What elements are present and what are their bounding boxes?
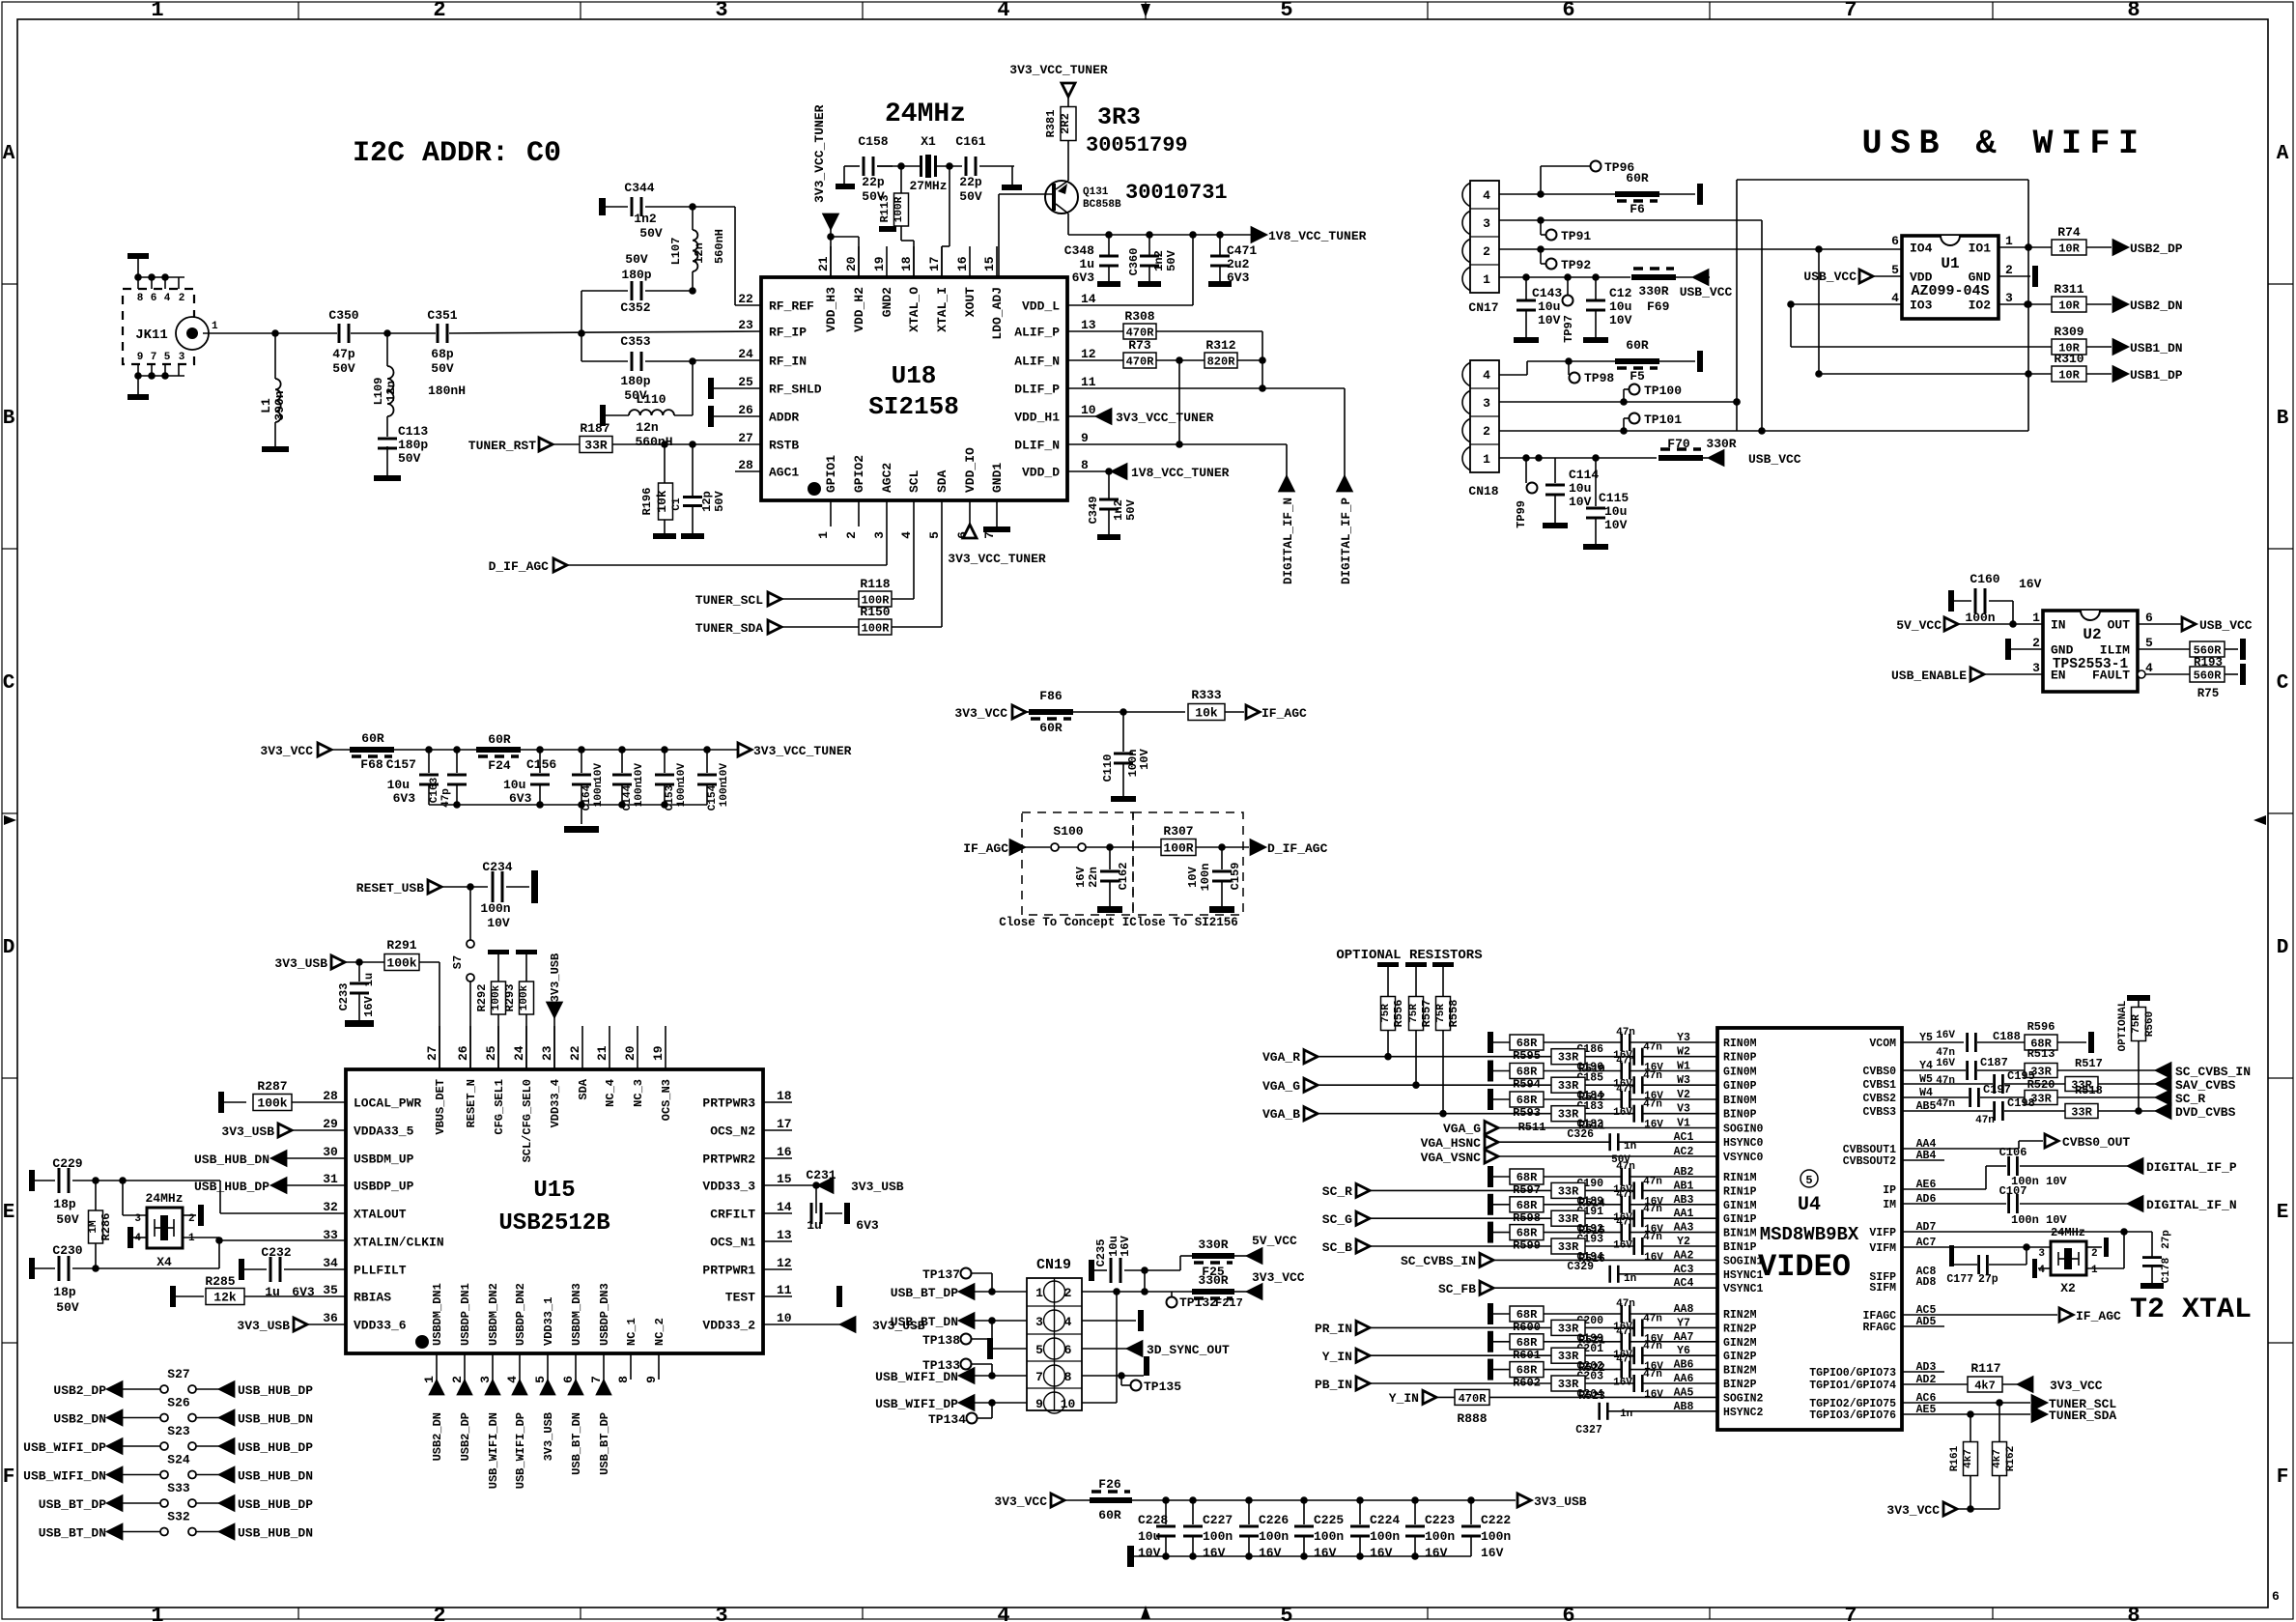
svg-text:ADDR: ADDR	[769, 411, 799, 425]
svg-text:36: 36	[323, 1311, 338, 1325]
svg-text:10u: 10u	[1569, 481, 1591, 496]
svg-text:U1: U1	[1941, 255, 1959, 272]
testpoint TP92	[1546, 258, 1592, 272]
svg-text:C12: C12	[1609, 286, 1632, 300]
svg-text:17: 17	[927, 256, 942, 271]
svg-text:C204: C204	[1576, 1388, 1603, 1401]
svg-text:F: F	[3, 1466, 15, 1489]
U18 ADDR plate	[708, 406, 761, 427]
svg-text:D: D	[2277, 937, 2289, 959]
svg-text:CVBS0: CVBS0	[1862, 1066, 1896, 1078]
svg-text:SC_G: SC_G	[1322, 1212, 1352, 1227]
svg-text:USB_HUB_DN: USB_HUB_DN	[194, 1152, 269, 1167]
svg-text:9: 9	[137, 352, 144, 363]
wire usb route v1824	[1758, 220, 1766, 435]
svg-text:USBDM_UP: USBDM_UP	[354, 1152, 414, 1167]
svg-text:50V: 50V	[959, 189, 982, 204]
net 3V3_USB R291	[274, 955, 384, 971]
svg-text:100k: 100k	[386, 956, 416, 971]
svg-text:12p: 12p	[700, 491, 714, 512]
svg-text:2: 2	[450, 1376, 465, 1383]
svg-text:23: 23	[738, 318, 753, 332]
net DIGITAL_IF_N right	[2129, 1197, 2237, 1212]
svg-text:SI2158: SI2158	[868, 392, 959, 421]
svg-text:180p: 180p	[620, 374, 650, 388]
svg-text:RSTB: RSTB	[769, 439, 799, 453]
U15 right pins	[702, 1089, 792, 1333]
svg-text:100R: 100R	[1163, 841, 1193, 856]
svg-text:USB_WIFI_DP: USB_WIFI_DP	[23, 1440, 106, 1455]
wire TGPIO1	[1902, 1383, 1968, 1385]
network Y_IN 68R/33R	[1488, 1326, 1717, 1375]
svg-text:XTAL_O: XTAL_O	[907, 287, 921, 332]
svg-text:4: 4	[1891, 291, 1899, 305]
svg-text:29: 29	[323, 1117, 338, 1131]
svg-text:2: 2	[179, 293, 185, 304]
inductor L109	[372, 333, 466, 437]
capacitor C153	[655, 750, 688, 811]
net PB_IN flag	[1315, 1377, 1551, 1392]
svg-text:25: 25	[738, 375, 753, 389]
wire CN19 p8	[1082, 1356, 1149, 1380]
svg-text:TP98: TP98	[1584, 371, 1614, 385]
svg-text:VGA_B: VGA_B	[1262, 1107, 1300, 1122]
svg-text:28: 28	[738, 458, 753, 472]
svg-text:1: 1	[2005, 234, 2013, 248]
svg-text:8: 8	[137, 293, 144, 304]
svg-text:2: 2	[2091, 1248, 2098, 1260]
power 3V3_VCC_TUNER at VDD_IO	[948, 525, 1046, 566]
net RESET_USB	[356, 880, 488, 896]
svg-text:RBIAS: RBIAS	[354, 1291, 391, 1305]
svg-text:3: 3	[2032, 661, 2040, 675]
svg-text:3: 3	[1035, 1315, 1043, 1329]
svg-text:OPTIONAL RESISTORS: OPTIONAL RESISTORS	[1336, 948, 1482, 963]
svg-text:R73: R73	[1128, 338, 1151, 353]
svg-text:5: 5	[533, 1376, 548, 1383]
svg-text:75R: 75R	[1435, 1004, 1447, 1023]
svg-text:TUNER_SDA: TUNER_SDA	[2049, 1409, 2116, 1423]
svg-text:IO3: IO3	[1910, 299, 1933, 313]
svg-text:8: 8	[1081, 458, 1089, 472]
svg-text:3D_SYNC_OUT: 3D_SYNC_OUT	[1147, 1343, 1230, 1357]
svg-text:68R: 68R	[1516, 1066, 1538, 1079]
testpoint TP98	[1569, 361, 1614, 385]
net IF_AGC U4	[2059, 1308, 2121, 1323]
svg-text:RESET_N: RESET_N	[465, 1079, 478, 1127]
resistor R193	[2138, 639, 2246, 669]
svg-text:C160: C160	[1970, 572, 1999, 586]
U15 left pin labels	[323, 1089, 443, 1333]
resistor R117	[1968, 1361, 2019, 1393]
svg-text:BIN2M: BIN2M	[1723, 1365, 1757, 1378]
svg-text:C231: C231	[806, 1168, 836, 1182]
svg-text:LDO_ADJ: LDO_ADJ	[990, 287, 1005, 340]
svg-text:USB_HUB_DP: USB_HUB_DP	[238, 1383, 313, 1398]
net 3V3_USB pin15	[792, 1179, 904, 1194]
svg-text:2: 2	[433, 1604, 445, 1622]
svg-text:GND1: GND1	[990, 463, 1005, 493]
svg-text:20: 20	[623, 1045, 638, 1061]
svg-text:3: 3	[179, 352, 185, 363]
svg-text:ALIF_P: ALIF_P	[1014, 326, 1060, 340]
svg-text:R596: R596	[2027, 1020, 2055, 1034]
svg-text:1u: 1u	[1079, 257, 1094, 271]
capacitor C160	[1948, 572, 2042, 625]
switch S33	[39, 1481, 313, 1512]
svg-text:NC_2: NC_2	[653, 1318, 666, 1346]
net 5V_VCC flag	[1896, 617, 2043, 633]
svg-text:VDD_H1: VDD_H1	[1014, 411, 1060, 425]
svg-text:27: 27	[425, 1045, 439, 1061]
svg-text:OPTIONAL: OPTIONAL	[2117, 1000, 2129, 1051]
svg-text:R558: R558	[1447, 1000, 1460, 1028]
svg-text:USBDP_UP: USBDP_UP	[354, 1180, 414, 1194]
svg-text:6: 6	[2145, 611, 2153, 625]
svg-text:GIN0M: GIN0M	[1723, 1067, 1757, 1079]
net 3V3_VCC flag F86	[954, 705, 1030, 721]
wire IFAGC	[1902, 1314, 2057, 1316]
svg-text:VDD33_6: VDD33_6	[354, 1319, 407, 1333]
svg-text:1: 1	[151, 1604, 163, 1622]
svg-text:TP137: TP137	[922, 1267, 960, 1282]
svg-text:R292: R292	[475, 984, 489, 1012]
wire RFAGC stub	[1902, 1325, 1944, 1327]
svg-text:IO1: IO1	[1969, 242, 1992, 256]
svg-text:L1: L1	[259, 398, 273, 413]
svg-text:CVBS1: CVBS1	[1862, 1079, 1896, 1092]
U18 top pins	[816, 246, 1005, 340]
svg-text:CVBS2: CVBS2	[1862, 1093, 1896, 1105]
svg-text:21: 21	[816, 256, 831, 271]
crystal X4	[134, 1191, 195, 1269]
capacitor C159	[1186, 847, 1242, 913]
svg-text:10u: 10u	[503, 778, 525, 792]
svg-text:470R: 470R	[1126, 356, 1155, 369]
svg-text:2: 2	[2005, 263, 2013, 277]
svg-text:C235: C235	[1094, 1239, 1108, 1267]
capacitor C162	[1074, 847, 1130, 913]
ferrite F25	[1180, 1238, 1248, 1279]
svg-text:A: A	[2277, 143, 2289, 165]
svg-text:USB1_DN: USB1_DN	[2130, 341, 2183, 356]
svg-text:RIN1P: RIN1P	[1723, 1185, 1757, 1198]
svg-text:3V3_USB: 3V3_USB	[851, 1180, 904, 1194]
svg-text:10u: 10u	[1609, 299, 1631, 314]
wire CN17 p4	[1499, 166, 1615, 198]
wire X4 p3	[123, 1181, 147, 1215]
svg-text:5V_VCC: 5V_VCC	[1896, 618, 1942, 633]
wire CN19 p2	[1082, 1256, 1193, 1295]
svg-text:75R: 75R	[2131, 1014, 2142, 1034]
svg-text:10V: 10V	[1138, 748, 1151, 769]
title 24MHz	[885, 100, 966, 129]
title USB & WIFI	[1861, 125, 2146, 163]
svg-text:TGPIO3/GPIO76: TGPIO3/GPIO76	[1809, 1409, 1896, 1422]
svg-text:100n: 100n	[1965, 611, 1995, 625]
svg-text:TP97: TP97	[1562, 315, 1575, 343]
svg-text:22p: 22p	[862, 175, 885, 189]
svg-text:100n: 100n	[1481, 1529, 1511, 1544]
wire X4 p1	[183, 1238, 219, 1240]
svg-text:L107: L107	[669, 238, 683, 266]
net 3D_SYNC_OUT	[1082, 1342, 1230, 1357]
svg-text:USB2_DN: USB2_DN	[53, 1412, 106, 1427]
svg-text:BIN1M: BIN1M	[1723, 1228, 1757, 1240]
U1 body	[1902, 236, 1998, 319]
svg-text:560nH: 560nH	[713, 229, 726, 264]
svg-text:10u: 10u	[387, 778, 410, 792]
wire chain rowC	[393, 746, 738, 754]
svg-text:ILIM: ILIM	[2100, 643, 2130, 658]
svg-text:7: 7	[1844, 1604, 1857, 1622]
svg-text:TGPIO0/GPIO73: TGPIO0/GPIO73	[1809, 1367, 1896, 1380]
svg-text:4: 4	[2038, 1265, 2045, 1276]
svg-text:68R: 68R	[1516, 1364, 1538, 1378]
svg-text:C360: C360	[1127, 248, 1141, 276]
svg-text:47n: 47n	[1616, 1056, 1635, 1067]
svg-text:USB_VCC: USB_VCC	[1680, 285, 1733, 299]
svg-text:RIN2P: RIN2P	[1723, 1323, 1757, 1335]
capacitor C349	[1087, 471, 1138, 540]
svg-text:R556: R556	[1392, 1000, 1405, 1028]
wire cap bank ground rail	[1127, 1546, 1471, 1567]
capacitor C223	[1405, 1500, 1455, 1560]
svg-text:D_IF_AGC: D_IF_AGC	[1267, 841, 1328, 856]
capacitor C178	[2140, 1230, 2172, 1289]
capacitor C348	[1064, 235, 1120, 287]
svg-text:22n: 22n	[1087, 867, 1100, 888]
svg-text:C1: C1	[671, 498, 683, 511]
svg-text:10k: 10k	[1195, 706, 1218, 721]
capacitor C227	[1183, 1500, 1233, 1560]
svg-text:3V3_VCC: 3V3_VCC	[1886, 1503, 1940, 1518]
svg-text:VIDEO: VIDEO	[1758, 1249, 1851, 1285]
svg-text:100R: 100R	[893, 196, 905, 222]
svg-text:R162: R162	[2005, 1446, 2017, 1471]
svg-text:12n: 12n	[384, 381, 398, 402]
svg-text:100k: 100k	[257, 1096, 287, 1111]
svg-text:16V: 16V	[1644, 1120, 1663, 1131]
svg-text:47n: 47n	[1643, 1070, 1662, 1082]
svg-text:390n: 390n	[272, 390, 287, 420]
svg-text:60R: 60R	[361, 731, 384, 746]
svg-text:L110: L110	[636, 392, 666, 407]
svg-text:19: 19	[651, 1045, 666, 1061]
svg-text:24: 24	[512, 1045, 526, 1061]
svg-text:R187: R187	[580, 421, 609, 436]
svg-text:75R: 75R	[1408, 1004, 1420, 1023]
svg-text:47n: 47n	[1643, 1176, 1662, 1187]
svg-text:SOGIN2: SOGIN2	[1723, 1392, 1764, 1405]
svg-text:R293: R293	[503, 984, 517, 1012]
net SC_CVBS_IN row	[1902, 1056, 2251, 1087]
svg-text:R161: R161	[1949, 1445, 1961, 1471]
svg-text:F69: F69	[1647, 299, 1670, 314]
network SC_G 68R/33R	[1488, 1189, 1717, 1238]
svg-text:16V: 16V	[1203, 1546, 1226, 1560]
net VGA_HSNC flag	[1421, 1135, 1609, 1151]
wire TEST plate	[836, 1286, 842, 1307]
svg-text:3V3_VCC: 3V3_VCC	[954, 706, 1007, 721]
U4 left pin labels	[1674, 1032, 1764, 1419]
wire CN19 p5 gnd	[987, 1338, 1027, 1359]
ferrite F69 330R	[1631, 269, 1692, 314]
svg-text:C352: C352	[620, 300, 650, 315]
resistor R310	[2052, 352, 2112, 383]
svg-text:10u: 10u	[1138, 1529, 1160, 1544]
svg-text:U2: U2	[2083, 626, 2101, 643]
capacitor C226	[1239, 1500, 1289, 1560]
capacitor C231	[806, 1168, 879, 1233]
svg-text:AGC1: AGC1	[769, 466, 799, 480]
ferrite F68	[350, 731, 394, 772]
svg-text:OCS_N1: OCS_N1	[710, 1236, 755, 1250]
svg-text:3V3_VCC_TUNER: 3V3_VCC_TUNER	[1116, 411, 1214, 425]
svg-text:USB_VCC: USB_VCC	[1803, 270, 1857, 284]
svg-text:USB_HUB_DP: USB_HUB_DP	[238, 1440, 313, 1455]
svg-text:L109: L109	[372, 378, 385, 406]
svg-text:16V: 16V	[1481, 1546, 1504, 1560]
capacitor C188	[1936, 1030, 2025, 1059]
svg-text:10V: 10V	[719, 763, 730, 783]
svg-text:IO4: IO4	[1910, 242, 1933, 256]
net TUNER_SDA U4	[2032, 1408, 2116, 1423]
svg-text:6V3: 6V3	[393, 791, 416, 806]
svg-text:C230: C230	[52, 1243, 82, 1258]
svg-text:BIN1P: BIN1P	[1723, 1241, 1757, 1254]
svg-text:10V: 10V	[1538, 313, 1561, 327]
svg-text:USB & WIFI: USB & WIFI	[1861, 125, 2146, 163]
svg-text:SC_CVBS_IN: SC_CVBS_IN	[1401, 1254, 1476, 1268]
svg-text:F86: F86	[1039, 689, 1063, 703]
U15 bottom net flags	[431, 1380, 612, 1489]
svg-text:Close To Concept IClose To SI2: Close To Concept IClose To SI2156	[999, 916, 1238, 929]
testpoint TP99	[1515, 458, 1538, 528]
svg-text:16V: 16V	[1644, 1389, 1663, 1401]
svg-text:60R: 60R	[1039, 721, 1063, 735]
svg-text:TP100: TP100	[1644, 384, 1682, 398]
svg-text:3: 3	[478, 1376, 493, 1383]
svg-text:24MHz: 24MHz	[145, 1191, 183, 1206]
svg-text:12k: 12k	[213, 1291, 237, 1305]
svg-text:TUNER_SDA: TUNER_SDA	[695, 621, 763, 636]
svg-text:USB_BT_DP: USB_BT_DP	[598, 1412, 611, 1475]
svg-text:SIFM: SIFM	[1869, 1282, 1896, 1295]
svg-text:10R: 10R	[2058, 242, 2080, 256]
svg-text:27p: 27p	[1978, 1273, 1998, 1286]
net SC_CVBS_IN flag left	[1401, 1253, 1717, 1268]
testpoint TP101	[1630, 413, 1683, 427]
svg-text:6: 6	[2272, 1589, 2280, 1604]
svg-text:23: 23	[540, 1045, 554, 1061]
wire RF_REF riser	[735, 207, 761, 305]
svg-text:7: 7	[982, 531, 997, 539]
svg-text:GND: GND	[1969, 270, 1992, 285]
svg-text:50V: 50V	[332, 361, 355, 376]
svg-text:SDA: SDA	[935, 470, 950, 493]
resistor R287	[218, 1079, 346, 1113]
svg-text:F6: F6	[1630, 202, 1645, 216]
svg-text:68R: 68R	[1516, 1308, 1538, 1322]
U1 pin labels	[1891, 234, 2013, 313]
svg-text:Q131: Q131	[1083, 186, 1109, 198]
capacitor C327	[1575, 1403, 1717, 1437]
svg-text:ALIF_N: ALIF_N	[1014, 355, 1060, 369]
svg-text:1: 1	[151, 0, 163, 22]
svg-text:C344: C344	[624, 181, 654, 195]
svg-text:IO2: IO2	[1969, 299, 1992, 313]
svg-text:E: E	[3, 1202, 15, 1224]
resistor R308	[1067, 309, 1266, 392]
wire usb route v1798	[1733, 180, 2032, 431]
svg-text:6: 6	[1562, 1604, 1574, 1622]
wire 1V8 rail	[1068, 231, 1252, 239]
svg-text:6: 6	[561, 1376, 576, 1383]
svg-text:1: 1	[2032, 611, 2040, 625]
svg-text:VDD_L: VDD_L	[1022, 299, 1060, 314]
net TUNER_SDA	[695, 620, 859, 636]
svg-text:C178: C178	[2161, 1257, 2172, 1283]
svg-text:USB1_DP: USB1_DP	[2130, 368, 2183, 383]
inductor L107	[669, 207, 726, 295]
svg-text:USBDM_DN1: USBDM_DN1	[431, 1283, 444, 1346]
svg-text:22: 22	[738, 292, 753, 306]
svg-text:SAV_CVBS: SAV_CVBS	[2175, 1078, 2236, 1093]
svg-text:R511: R511	[1518, 1121, 1546, 1134]
svg-text:470R: 470R	[1459, 1392, 1488, 1406]
svg-text:10V: 10V	[1609, 313, 1632, 327]
svg-text:USB_HUB_DN: USB_HUB_DN	[238, 1526, 313, 1541]
U18 RF_SHLD plate	[708, 378, 761, 399]
svg-text:1: 1	[1035, 1286, 1043, 1300]
svg-text:VDDA33_5: VDDA33_5	[354, 1124, 414, 1139]
wire C351 to RF_IP	[449, 329, 761, 337]
capacitor C144	[612, 750, 645, 811]
wire JK11 to C350	[203, 329, 337, 337]
resistor R73	[1067, 338, 1205, 369]
svg-text:16V: 16V	[1644, 1252, 1663, 1264]
svg-text:1V8_VCC_TUNER: 1V8_VCC_TUNER	[1268, 229, 1367, 243]
svg-text:C198: C198	[2007, 1096, 2035, 1110]
svg-text:C157: C157	[386, 757, 416, 772]
svg-text:7: 7	[151, 352, 157, 363]
svg-text:MSD8WB9BX: MSD8WB9BX	[1760, 1224, 1859, 1245]
wire X2 p4 gnd	[2032, 1259, 2051, 1278]
wire VIFP	[1902, 1228, 2152, 1257]
svg-text:50V: 50V	[56, 1300, 79, 1315]
net USB_VCC flag CN17	[1680, 270, 1733, 299]
wire U1 pin4 net	[1787, 300, 2052, 347]
capacitor C353	[581, 334, 696, 403]
svg-text:100n: 100n	[593, 782, 605, 807]
svg-text:R557: R557	[1420, 1000, 1433, 1028]
svg-text:3V3_VCC: 3V3_VCC	[260, 744, 313, 758]
svg-text:R291: R291	[386, 938, 416, 953]
svg-text:26: 26	[738, 403, 753, 417]
svg-text:12: 12	[1081, 347, 1096, 361]
svg-text:2: 2	[2032, 636, 2040, 650]
dashed region close-to	[999, 812, 1243, 929]
inductor L1	[259, 333, 289, 452]
svg-text:1n: 1n	[1624, 1273, 1636, 1285]
svg-text:33R: 33R	[584, 439, 608, 453]
wire DLIF_N to DIGITAL_IF_N	[1067, 360, 1287, 477]
svg-text:EN: EN	[2051, 669, 2066, 683]
svg-text:C350: C350	[328, 308, 358, 323]
svg-text:C156: C156	[526, 757, 556, 772]
svg-text:1V8_VCC_TUNER: 1V8_VCC_TUNER	[1131, 466, 1230, 480]
